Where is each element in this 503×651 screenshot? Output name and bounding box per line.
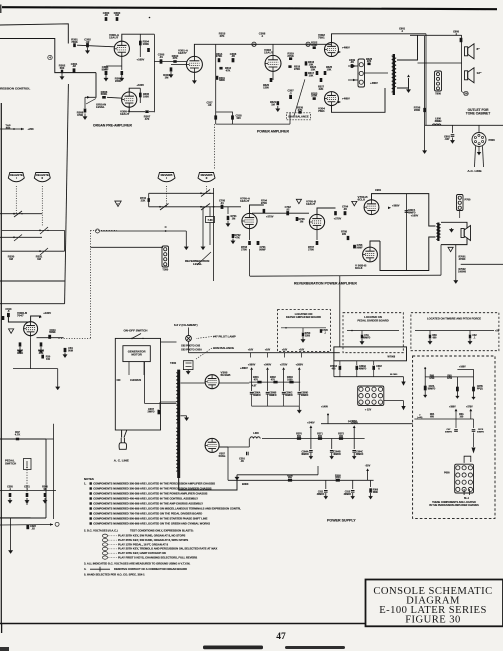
svg-text:12″: 12″ bbox=[477, 71, 482, 75]
filter cap C300C bbox=[283, 382, 285, 391]
chain 3 grounds bbox=[325, 493, 327, 496]
ground below R701 bbox=[227, 221, 229, 224]
svg-text:-25V: -25V bbox=[365, 464, 371, 468]
svg-text:+375V: +375V bbox=[466, 407, 473, 409]
svg-text:ON: ON bbox=[117, 378, 121, 382]
svg-text:POWER SUPPLY: POWER SUPPLY bbox=[327, 518, 356, 522]
filter cap C300B bbox=[267, 382, 269, 391]
svg-text:HUM BALANCE: HUM BALANCE bbox=[213, 346, 234, 350]
svg-text:470: 470 bbox=[271, 379, 276, 382]
vertical from row B to T-60 bbox=[209, 207, 211, 217]
svg-text:20MFD: 20MFD bbox=[356, 454, 364, 456]
wires below generator box to plug bbox=[121, 430, 123, 438]
svg-text:5. HAND SELECTED PER H.O. CO.: 5. HAND SELECTED PER H.O. CO. SPEC. 30X-… bbox=[84, 573, 145, 577]
resistor R702 bbox=[232, 234, 235, 238]
svg-text:+465V: +465V bbox=[342, 97, 350, 101]
svg-text:40MFD: 40MFD bbox=[359, 367, 367, 370]
resistor R705 box T-60 bbox=[206, 217, 215, 223]
reverb speaker loop wire bbox=[441, 222, 467, 228]
bias balance pot diagonal bbox=[294, 79, 305, 116]
svg-text:26: 26 bbox=[464, 92, 468, 96]
resistors right of V303 bbox=[305, 61, 308, 65]
enclosure bottom box top edge bbox=[0, 280, 65, 282]
speaker 2 twelve inch bbox=[465, 71, 468, 80]
svg-text:2700: 2700 bbox=[308, 247, 314, 251]
V700-A plate load bbox=[250, 205, 264, 213]
svg-text:1M: 1M bbox=[232, 216, 236, 220]
switch arm 2 bbox=[40, 227, 48, 234]
bias network between output tubes bbox=[316, 71, 319, 75]
resistor R302 500 bbox=[61, 70, 63, 74]
svg-text:100: 100 bbox=[236, 116, 241, 120]
svg-text:REVERBERATION POWER AMPLIFIE: REVERBERATION POWER AMPLIFIER bbox=[294, 281, 357, 285]
svg-text:100K: 100K bbox=[311, 94, 317, 98]
output transformer secondary winding bbox=[394, 58, 396, 87]
node 25 circle bbox=[306, 42, 310, 46]
inductor L800 bbox=[433, 124, 441, 125]
ground below R702 bbox=[232, 239, 234, 241]
svg-text:IN THE PERCUSSION AMPLIFIER: IN THE PERCUSSION AMPLIFIER CHASSIS bbox=[429, 504, 479, 507]
generator outer box bbox=[115, 338, 160, 430]
series resistor R301b bbox=[273, 381, 277, 384]
svg-text:12AU7: 12AU7 bbox=[306, 202, 316, 206]
pedal box bottom edge bbox=[0, 517, 46, 519]
junction mark top bbox=[149, 17, 151, 19]
tube V302 output upper bbox=[325, 43, 339, 57]
svg-text:2. D.C. VOLTAGES (V.A.C.): 2. D.C. VOLTAGES (V.A.C.) bbox=[84, 529, 118, 533]
svg-text:+140V: +140V bbox=[321, 406, 328, 409]
svg-text:25: 25 bbox=[307, 42, 311, 46]
triangle marker near C703 bbox=[296, 199, 301, 203]
svg-text:100K: 100K bbox=[143, 94, 149, 98]
svg-text:7591: 7591 bbox=[318, 36, 325, 40]
right B+ vertical to outlet bbox=[425, 34, 427, 126]
svg-text:LOCATED ON TIMBRE AND PITCH FO: LOCATED ON TIMBRE AND PITCH FORCE bbox=[427, 317, 481, 321]
svg-text:ORGAN PRE-AMPLIFIER: ORGAN PRE-AMPLIFIER bbox=[93, 123, 132, 127]
svg-text:C62 PHOTO CH2: C62 PHOTO CH2 bbox=[181, 345, 201, 348]
svg-text:+380V: +380V bbox=[449, 407, 456, 409]
celeste tab stems dotted bbox=[15, 186, 17, 214]
connector P300 to tone cabinet bbox=[472, 133, 486, 147]
pedal divider cap C7A bbox=[361, 331, 363, 335]
coupling caps to output grids bbox=[344, 211, 347, 215]
ground drop x=10.6 bbox=[10, 518, 12, 549]
svg-text:XPRESSION CONTROL: XPRESSION CONTROL bbox=[0, 86, 30, 90]
series resistor R301a bbox=[257, 381, 261, 384]
on-off switch arm bbox=[132, 334, 141, 339]
top left edge tick bbox=[0, 5, 2, 14]
bottom edge scan smudge 3 bbox=[0, 647, 9, 651]
dashed box LOCATED ON PEDAL DIVIDER BOARD bbox=[343, 313, 403, 353]
connector A300 grid bbox=[358, 386, 384, 405]
bottom secondary wire bbox=[237, 474, 318, 476]
svg-text:+28: +28 bbox=[495, 330, 500, 333]
wire stub TAP at left bbox=[0, 128, 24, 130]
svg-text:22K: 22K bbox=[141, 198, 146, 202]
svg-text:4.: 4. bbox=[84, 567, 86, 571]
power transformer primary winding upper bbox=[176, 373, 178, 423]
wire y=517.8 bbox=[0, 517, 31, 519]
resistor R305 at V300-B plate bbox=[139, 88, 141, 103]
svg-text:+16V: +16V bbox=[248, 350, 254, 352]
reverb speaker bbox=[461, 229, 464, 238]
percussion vertical branch C bbox=[473, 369, 475, 395]
filament tap a bbox=[250, 353, 252, 358]
svg-text:PLAY FIRST 5 KEYS, CHANGING SE: PLAY FIRST 5 KEYS, CHANGING SELECTORS, F… bbox=[118, 555, 197, 559]
coupling wire to driver bbox=[154, 61, 186, 63]
output transformer T301 core bbox=[393, 54, 395, 95]
svg-text:600: 600 bbox=[318, 435, 323, 438]
switch wire row 2 bbox=[2, 229, 65, 231]
rectifier output wire bbox=[219, 382, 249, 384]
percussion chassis dashed border bbox=[413, 356, 495, 518]
organ level pot R306 bbox=[102, 96, 106, 99]
resistor R321 bbox=[277, 101, 280, 105]
transformer bottom leads bbox=[179, 475, 237, 490]
leader to hum balance dashed bbox=[196, 348, 212, 359]
resistor R311 bbox=[216, 76, 219, 80]
svg-text:+ 12V: + 12V bbox=[365, 409, 372, 412]
svg-text:47K: 47K bbox=[220, 34, 225, 38]
wire grid to V300-A bbox=[77, 45, 115, 47]
svg-text:470: 470 bbox=[254, 379, 259, 382]
percussion cap C67B bbox=[472, 387, 475, 392]
svg-text:40MFD: 40MFD bbox=[363, 336, 371, 339]
bottom edge scan smudge 1 bbox=[203, 646, 263, 650]
svg-text:COMPONENTS NUMBERED 300-399 AR: COMPONENTS NUMBERED 300-399 ARE LOCATED … bbox=[93, 486, 212, 490]
svg-text:COMPONENTS NUMBERED 900-999 AR: COMPONENTS NUMBERED 900-999 ARE LOCATED … bbox=[93, 521, 210, 525]
chain 3 left riser bbox=[227, 447, 229, 480]
wire B corner to organ level pot bbox=[85, 73, 96, 98]
capacitor C64 near shield corner bbox=[64, 348, 67, 352]
percussion ground A bbox=[424, 393, 426, 395]
dashed box LOCATED ON KEYER AMPLIFIER BOARD bbox=[278, 310, 331, 352]
wire C307 to transformer bbox=[159, 402, 161, 409]
wire junction row y=44 to phase splitter bbox=[216, 43, 332, 45]
svg-text:220: 220 bbox=[367, 59, 372, 63]
reverb bottom rail bbox=[250, 275, 441, 276]
AC plug bbox=[120, 438, 122, 443]
plate rail top wire bbox=[332, 34, 427, 43]
resistor R306 drop bbox=[370, 480, 372, 487]
capacitor C318 bbox=[231, 115, 234, 119]
wire plate to +130V bbox=[31, 316, 41, 322]
wire reverb strip down bbox=[459, 211, 461, 219]
svg-text:24: 24 bbox=[252, 42, 256, 46]
resistor R326 near strip bbox=[367, 63, 370, 66]
svg-text:POWER AMPLIFIER: POWER AMPLIFIER bbox=[257, 129, 289, 133]
grid resistor R313 bbox=[171, 63, 186, 65]
tube V301-A driver bbox=[186, 56, 202, 72]
svg-text:40MFD: 40MFD bbox=[301, 453, 309, 456]
svg-text:COMPONENTS NUMBERED 800-899 AR: COMPONENTS NUMBERED 800-899 ARE LOCATED … bbox=[93, 516, 207, 520]
svg-text:W-7601: W-7601 bbox=[390, 374, 398, 376]
svg-text:4700: 4700 bbox=[447, 377, 453, 380]
timbre box grounds bbox=[429, 339, 431, 341]
percussion cap C68 bbox=[456, 387, 459, 392]
page bottom border line bbox=[0, 623, 366, 625]
connector right exit wire bbox=[384, 400, 404, 402]
bottom row wire under solid box bbox=[334, 376, 404, 378]
long input wire from organ bbox=[101, 230, 187, 232]
svg-text:MOTOR: MOTOR bbox=[131, 353, 141, 357]
svg-text:270K: 270K bbox=[287, 54, 293, 58]
tap arrow +360V bbox=[251, 370, 253, 382]
switch wire row 3 bbox=[0, 236, 42, 238]
V301 plate wire up bbox=[194, 44, 215, 56]
svg-text:30MH: 30MH bbox=[435, 119, 442, 123]
transformer HV lead to rectifier bbox=[181, 382, 205, 384]
triangle marker below speaker loop bbox=[448, 247, 453, 251]
filter cap C304B bbox=[331, 439, 333, 450]
vertical supply line of preamp bbox=[153, 34, 155, 112]
svg-text:P700: P700 bbox=[465, 198, 472, 202]
upper plate wire to transformer bbox=[372, 194, 436, 226]
svg-text:12AU7: 12AU7 bbox=[120, 112, 130, 116]
svg-text:5U4G: 5U4G bbox=[219, 454, 226, 458]
cap C314 50MF bbox=[48, 335, 51, 339]
svg-text:P300: P300 bbox=[489, 138, 496, 142]
resistor R327 bbox=[19, 342, 22, 346]
keyer box cap bbox=[320, 329, 322, 333]
svg-text:+340V: +340V bbox=[264, 362, 272, 366]
wire cathode row bbox=[13, 368, 58, 370]
terminal strip TB301 bbox=[358, 59, 365, 87]
svg-text:PLAY 25TH KEY, SW FUND, ORGAN: PLAY 25TH KEY, SW FUND, ORGAN AT 8, NO S… bbox=[118, 534, 186, 538]
svg-text:(+240V): (+240V) bbox=[348, 419, 357, 423]
percussion top right wire bbox=[457, 368, 473, 370]
ground below C801 bbox=[452, 138, 454, 141]
enclosure bottom box bottom edge bbox=[0, 303, 65, 305]
capacitor C800 on speaker wire bbox=[460, 38, 463, 42]
ground below hum balance bbox=[187, 370, 189, 372]
output transformer primary winding bbox=[392, 56, 394, 92]
svg-text:1200: 1200 bbox=[263, 85, 269, 89]
capacitor C801 bbox=[452, 125, 454, 133]
triangle marker at 6CL8 grid bbox=[352, 201, 357, 205]
svg-text:270K: 270K bbox=[216, 54, 222, 58]
svg-text:+465V: +465V bbox=[370, 81, 378, 85]
page left edge line bbox=[0, 103, 2, 624]
svg-text:COMPONENTS NUMBERED 400-499 AR: COMPONENTS NUMBERED 400-499 ARE LOCATED … bbox=[93, 496, 198, 500]
svg-text:4.5T: 4.5T bbox=[252, 385, 257, 388]
svg-text:.1: .1 bbox=[324, 332, 327, 334]
note 2 voltage condition list bbox=[103, 534, 218, 560]
svg-text:BIAS BALANCE: BIAS BALANCE bbox=[288, 114, 309, 118]
leader to pilot lamp dashed bbox=[196, 337, 212, 339]
vertical feed line x=215.7 bbox=[215, 44, 217, 124]
generator motor box bbox=[123, 346, 150, 362]
keyer box resistor R700 bbox=[302, 328, 304, 332]
terminal circle pedal output bbox=[55, 522, 59, 526]
svg-text:TEST CONDITIONS ONLY, EXPRESSI: TEST CONDITIONS ONLY, EXPRESSION BLASTS: bbox=[130, 529, 194, 533]
svg-text:40MFD: 40MFD bbox=[285, 394, 293, 397]
terminal strip T300 bbox=[162, 246, 169, 267]
svg-text:1M: 1M bbox=[271, 103, 275, 107]
svg-text:15K: 15K bbox=[327, 67, 332, 71]
tap arrow +275V bbox=[283, 370, 285, 382]
percussion cap below rail C bbox=[473, 419, 475, 428]
rail to transformer riser bbox=[440, 245, 442, 276]
note list 1 components numbering bbox=[84, 481, 241, 525]
svg-text:2MFD: 2MFD bbox=[148, 409, 155, 413]
svg-text:6.3 V (FILAMENT): 6.3 V (FILAMENT) bbox=[174, 323, 198, 327]
svg-text:50MFD: 50MFD bbox=[477, 431, 484, 433]
grid resistor lower R323 bbox=[313, 97, 316, 100]
percussion ground B bbox=[456, 394, 458, 396]
svg-text:1M: 1M bbox=[43, 488, 46, 491]
lower plate wire to transformer bbox=[370, 241, 380, 247]
percussion vertical branch A bbox=[424, 368, 426, 393]
svg-text:PLAY 25TH KEY, TREMOLO AND PER: PLAY 25TH KEY, TREMOLO AND PERCUSSION ON… bbox=[118, 547, 218, 551]
bias balance dashed box bbox=[287, 113, 311, 120]
capacitor C707A on vertical feed bbox=[405, 194, 407, 271]
tube V304 output lower bbox=[325, 92, 339, 106]
svg-text:150: 150 bbox=[46, 358, 51, 361]
filter bank 1 riser stubs bbox=[251, 394, 253, 406]
filter bank 1 bottom rail bbox=[252, 405, 300, 407]
wire C313 to tube top bbox=[8, 317, 30, 322]
svg-text:+260V: +260V bbox=[296, 362, 304, 366]
svg-text:T800: T800 bbox=[435, 92, 441, 96]
motor leads bbox=[128, 362, 130, 375]
svg-text:15K: 15K bbox=[309, 73, 314, 77]
capacitor C313 left bbox=[7, 313, 10, 317]
percussion down arrow to connector bbox=[473, 433, 475, 448]
power transformer primary winding lower bbox=[176, 428, 178, 471]
filter cap C313b bbox=[352, 480, 354, 489]
ground below R321 bbox=[277, 106, 279, 109]
svg-text:4700: 4700 bbox=[77, 113, 83, 117]
ground at x=424.6 bottom bbox=[424, 149, 426, 151]
svg-text:270K: 270K bbox=[261, 201, 267, 205]
tap arrow +240V b bbox=[353, 428, 355, 439]
filament tap c bbox=[284, 353, 286, 358]
svg-text:50MFD: 50MFD bbox=[428, 388, 436, 390]
filament tap b bbox=[267, 353, 269, 358]
svg-text:.01: .01 bbox=[220, 201, 224, 205]
risers to bottom row bbox=[339, 370, 341, 377]
capacitor C304 bbox=[147, 48, 150, 52]
svg-text:.05: .05 bbox=[343, 207, 347, 211]
node 26 circle bbox=[464, 91, 468, 95]
svg-text:500: 500 bbox=[60, 66, 65, 70]
wire input B bbox=[0, 39, 96, 73]
node 4 circle bbox=[48, 55, 52, 59]
resistor R300 at top bbox=[116, 17, 119, 21]
bottom-left component row bbox=[0, 490, 56, 492]
svg-text:50MF: 50MF bbox=[49, 330, 56, 334]
svg-text:470: 470 bbox=[145, 117, 150, 121]
svg-text:2700: 2700 bbox=[241, 247, 247, 251]
svg-text:47K: 47K bbox=[298, 108, 303, 112]
reverb switch arm A bbox=[201, 190, 210, 197]
tap arrow -25V bbox=[367, 471, 369, 480]
svg-text:II: II bbox=[42, 176, 44, 180]
svg-text:COMPONENTS NUMBERED 300-399 AR: COMPONENTS NUMBERED 300-399 ARE LOCATED … bbox=[93, 491, 207, 495]
svg-text:6CL8: 6CL8 bbox=[355, 266, 363, 270]
ground below R313 bbox=[170, 72, 172, 75]
speaker feed top wire bbox=[410, 34, 462, 36]
wire V700A to V700B grid bbox=[252, 212, 309, 214]
svg-text:COMPONENTS NUMBERED 600-699 AR: COMPONENTS NUMBERED 600-699 ARE LOCATED … bbox=[93, 506, 241, 510]
svg-text:.02: .02 bbox=[286, 207, 290, 211]
svg-text:270K: 270K bbox=[294, 67, 300, 71]
wire from pedal box up right bbox=[53, 424, 55, 519]
svg-text:15K: 15K bbox=[311, 67, 316, 71]
svg-text:.1: .1 bbox=[474, 337, 477, 339]
keyer box ground bbox=[302, 337, 304, 339]
capacitor C307 2MFD bbox=[158, 410, 161, 415]
svg-text:50MF: 50MF bbox=[102, 67, 109, 71]
svg-text:W7008: W7008 bbox=[388, 356, 396, 359]
svg-text:2200: 2200 bbox=[305, 335, 311, 337]
T700 primary winding bbox=[436, 224, 438, 240]
svg-text:+360V: +360V bbox=[248, 362, 256, 366]
tube V300-A bbox=[114, 41, 129, 56]
coupling cap C702 bbox=[286, 211, 289, 215]
svg-text:+160V: +160V bbox=[137, 58, 145, 62]
loop wire near C318 bbox=[216, 112, 233, 124]
resistor R304 100K bbox=[139, 34, 141, 57]
transformer center tap arrow bbox=[181, 415, 187, 417]
wire power amp bottom bbox=[216, 123, 290, 125]
bottom secondary right riser bbox=[317, 466, 319, 475]
output tube V700 lower 6CL8 bbox=[363, 247, 378, 262]
svg-text:12AU7: 12AU7 bbox=[264, 51, 274, 55]
capacitor C302 on grid wire bbox=[86, 43, 89, 47]
filter cap C300A bbox=[251, 382, 253, 391]
filter chain 3 wire bbox=[228, 479, 374, 481]
svg-text:50MF: 50MF bbox=[259, 247, 266, 251]
svg-text:2200: 2200 bbox=[414, 108, 420, 112]
percussion ground C bbox=[473, 395, 475, 397]
svg-text:500K: 500K bbox=[101, 92, 107, 96]
svg-text:+130V: +130V bbox=[43, 311, 51, 315]
T700 secondary winding bbox=[439, 225, 441, 238]
svg-text:+160V: +160V bbox=[459, 366, 466, 368]
tap arrow +240V a bbox=[310, 428, 312, 439]
speaker2 to node 26 wire bbox=[461, 80, 463, 92]
pedal switch symbol bbox=[24, 459, 32, 470]
svg-text:+275V: +275V bbox=[280, 362, 288, 366]
svg-text:+380V: +380V bbox=[240, 366, 248, 370]
resistor R710 on riser bbox=[148, 193, 150, 207]
svg-text:100000: 100000 bbox=[458, 270, 467, 273]
series resistor R305 chain3 bbox=[336, 479, 340, 482]
speaker 1 eight inch bbox=[465, 47, 468, 56]
resistor R319 bbox=[289, 57, 292, 60]
svg-text:40MFD: 40MFD bbox=[333, 453, 341, 456]
filter cap C300D bbox=[298, 382, 300, 391]
svg-text:100: 100 bbox=[460, 417, 465, 419]
svg-text:TONE CABINET: TONE CABINET bbox=[466, 112, 490, 116]
svg-text:T300: T300 bbox=[170, 361, 177, 365]
svg-text:12AT7: 12AT7 bbox=[178, 51, 187, 55]
vertical drop with ground x=455.8 bbox=[455, 245, 457, 279]
svg-text:100K: 100K bbox=[143, 42, 149, 46]
svg-text:PEDAL DIVIDER BOARD: PEDAL DIVIDER BOARD bbox=[357, 318, 388, 322]
percussion rail risers bbox=[455, 410, 457, 419]
tap arrow +260V bbox=[298, 370, 300, 382]
svg-text:.05: .05 bbox=[104, 13, 108, 17]
resistor R308 4700 bbox=[84, 97, 86, 108]
svg-text:+240V: +240V bbox=[307, 421, 315, 425]
svg-text:+160V: +160V bbox=[411, 214, 419, 218]
ground below T-60 branch bbox=[202, 207, 204, 246]
outlet feed wire bbox=[425, 124, 503, 126]
svg-text:47K: 47K bbox=[235, 235, 240, 239]
